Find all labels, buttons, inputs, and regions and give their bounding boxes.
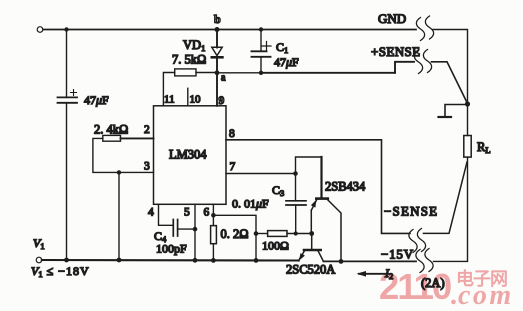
svg-text:0. 01μF: 0. 01μF — [232, 197, 269, 211]
svg-text:V1 ≤ −18V: V1 ≤ −18V — [31, 264, 90, 279]
svg-text:−SENSE: −SENSE — [384, 204, 438, 219]
wire right rail RL to -15V corner — [434, 157, 468, 261]
wire output rail to -15V break — [323, 260, 416, 262]
wire down to rail — [255, 234, 257, 261]
svg-text:2SB434: 2SB434 — [325, 180, 366, 194]
wire -SENSE after break diagonal to RL bottom — [424, 162, 468, 233]
svg-text:10: 10 — [190, 94, 202, 106]
junction dots on bottom rail — [64, 258, 69, 263]
capacitor C1 lower lead — [260, 57, 262, 73]
capacitor C4 — [173, 220, 177, 237]
node a junction dot — [215, 70, 220, 75]
junction dot on pin3 wire — [117, 170, 121, 174]
svg-text:.com: .com — [451, 280, 514, 311]
wire top rail from input terminal to GND break — [43, 29, 416, 31]
wire 100 ohm to base node — [287, 233, 312, 235]
pin 10 stub — [187, 88, 189, 106]
ground — [439, 105, 466, 118]
break symbol -15V line — [416, 250, 424, 273]
junction dot base node — [309, 231, 314, 236]
resistor 100 ohm body — [268, 231, 287, 237]
junction dot at load top node — [465, 101, 470, 106]
wire pin 7 — [226, 173, 296, 175]
wire 7.5k right to node a — [196, 72, 215, 74]
junction dot collector node — [339, 259, 344, 264]
svg-text:11: 11 — [164, 94, 175, 106]
svg-text:−15V: −15V — [381, 247, 414, 262]
svg-text:C3: C3 — [272, 183, 284, 198]
junction dot pin 6 — [211, 213, 216, 218]
capacitor C3 — [286, 201, 306, 205]
node b junction dot — [215, 27, 220, 32]
resistor RL body — [464, 136, 471, 158]
svg-text:7. 5kΩ: 7. 5kΩ — [172, 53, 206, 67]
wire junction down to bottom rail — [118, 172, 120, 260]
wire pin 4 down to C4 — [159, 204, 173, 225]
wire 0.2 ohm to rail — [212, 244, 214, 261]
junction dot C3 bottom — [294, 231, 298, 235]
wire bottom rail — [42, 259, 299, 262]
svg-text:+SENSE: +SENSE — [371, 44, 420, 59]
input terminal top-left — [37, 27, 43, 33]
resistor 100 ohm leads — [254, 231, 259, 236]
IC LM304 box — [154, 106, 227, 205]
wire 47uF upper lead — [66, 30, 68, 98]
capacitor C1 upper lead — [259, 27, 263, 31]
svg-text:a: a — [221, 73, 226, 84]
wire C4 right to pin 5 line — [178, 228, 195, 230]
wire 7.5k left down to pin 11 — [163, 73, 174, 106]
svg-text:LM304: LM304 — [169, 148, 207, 162]
svg-text:6: 6 — [204, 207, 210, 219]
wire +SENSE after break diagonal to load node — [432, 62, 468, 104]
capacitor 47uF (input) — [58, 90, 78, 103]
junction dot pin7 node — [293, 171, 298, 176]
wire 2.4k left loop to pin 3 — [93, 138, 154, 172]
input terminal bottom-left — [36, 257, 42, 263]
svg-text:RL: RL — [477, 140, 491, 155]
wire pin 2 to 2.4k resistor — [121, 137, 154, 139]
svg-text:8: 8 — [229, 128, 235, 140]
wire node a to +SENSE step — [217, 72, 261, 74]
transistor 2SB434 — [311, 199, 341, 262]
arrow I2 current — [359, 273, 388, 275]
svg-text:7: 7 — [230, 161, 236, 173]
svg-text:100Ω: 100Ω — [262, 239, 289, 253]
svg-text:V1: V1 — [33, 236, 45, 251]
svg-text:GND: GND — [378, 11, 406, 26]
wire right rail to RL — [467, 104, 469, 136]
svg-text:2SC520A: 2SC520A — [286, 263, 335, 277]
svg-text:100pF: 100pF — [156, 242, 187, 256]
break symbol -SENSE line — [409, 230, 417, 253]
svg-text:2. 4kΩ: 2. 4kΩ — [94, 123, 128, 137]
resistor 2.4k body — [103, 135, 121, 141]
break symbol +SENSE line — [414, 51, 422, 74]
svg-text:0. 2Ω: 0. 2Ω — [221, 227, 249, 241]
svg-text:4: 4 — [148, 207, 154, 219]
capacitor C3 upper lead — [295, 174, 297, 201]
svg-text:b: b — [214, 12, 221, 26]
wire pin6 node right and down to 100 ohm node — [213, 215, 256, 233]
svg-text:VD1: VD1 — [183, 38, 205, 53]
svg-text:2: 2 — [144, 124, 150, 136]
svg-text:(2A): (2A) — [421, 276, 445, 290]
wire pin 8 to -SENSE drop — [226, 140, 410, 234]
junction dot C4/pin5 — [193, 227, 198, 232]
plus sign of C1 — [262, 42, 271, 51]
wire pin 5 down to rail — [194, 204, 196, 260]
node junction at 47uF top — [64, 27, 68, 31]
svg-text:C1: C1 — [276, 40, 288, 55]
pin 9 wire from node a — [216, 73, 218, 106]
capacitor C1 — [252, 51, 271, 57]
diode VD1 — [212, 30, 223, 73]
svg-text:47μF: 47μF — [84, 93, 109, 107]
wire +SENSE step up — [395, 62, 414, 73]
wire jog from pin7 node to 2SB434 base — [296, 157, 322, 174]
break symbol GND line — [416, 18, 424, 41]
transistor 2SC520A — [299, 234, 324, 262]
resistor 0.2 ohm body — [211, 226, 217, 244]
svg-text:5: 5 — [184, 207, 190, 219]
svg-text:9: 9 — [219, 95, 225, 107]
wire top rail after GND break to right corner — [433, 30, 468, 103]
wire pin 6 stub — [212, 204, 214, 225]
svg-text:3: 3 — [144, 161, 150, 173]
resistor 7.5k body — [175, 69, 196, 76]
capacitor C3 lower lead — [295, 205, 297, 234]
svg-text:47μF: 47μF — [274, 55, 299, 69]
wire 47uF lower lead — [66, 103, 68, 260]
